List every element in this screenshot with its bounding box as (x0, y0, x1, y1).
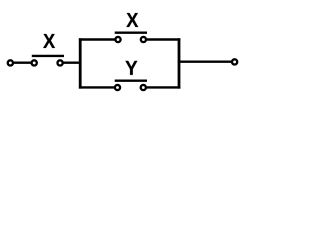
wire: merge junction to output terminal (178, 60, 231, 62)
wire: right junction vertical (parallel merge) (178, 38, 181, 88)
wire: bottom branch left segment (79, 86, 114, 88)
wire: series switch X to parallel split junction (64, 62, 82, 64)
wire: top branch right segment (147, 38, 181, 40)
wire: left junction vertical (parallel split) (79, 38, 82, 88)
wire: input terminal to series switch X movable contact (14, 62, 31, 64)
switch Y (bottom branch) movable contact circle (115, 85, 120, 90)
switch X1 (series) fixed contact circle (58, 60, 63, 65)
wire: top branch left segment (79, 38, 115, 40)
switch Y (bottom branch) contact bar (115, 79, 147, 81)
wire: bottom branch right segment (147, 86, 181, 88)
switch Y (bottom branch) fixed contact circle (141, 85, 146, 90)
switch X1 (series) movable contact circle (32, 60, 37, 65)
switch X2 (top branch) fixed contact circle (141, 37, 146, 42)
switch X1 (series) contact bar (32, 55, 64, 57)
label Y (bottom branch switch) (125, 61, 137, 75)
label X (top branch switch) (126, 13, 138, 27)
input terminal (left open node) (8, 60, 13, 65)
switch X2 (top branch) contact bar (115, 31, 147, 33)
label X (series switch) (43, 34, 55, 48)
output terminal (right open node) (232, 59, 237, 64)
switch X2 (top branch) movable contact circle (115, 37, 120, 42)
